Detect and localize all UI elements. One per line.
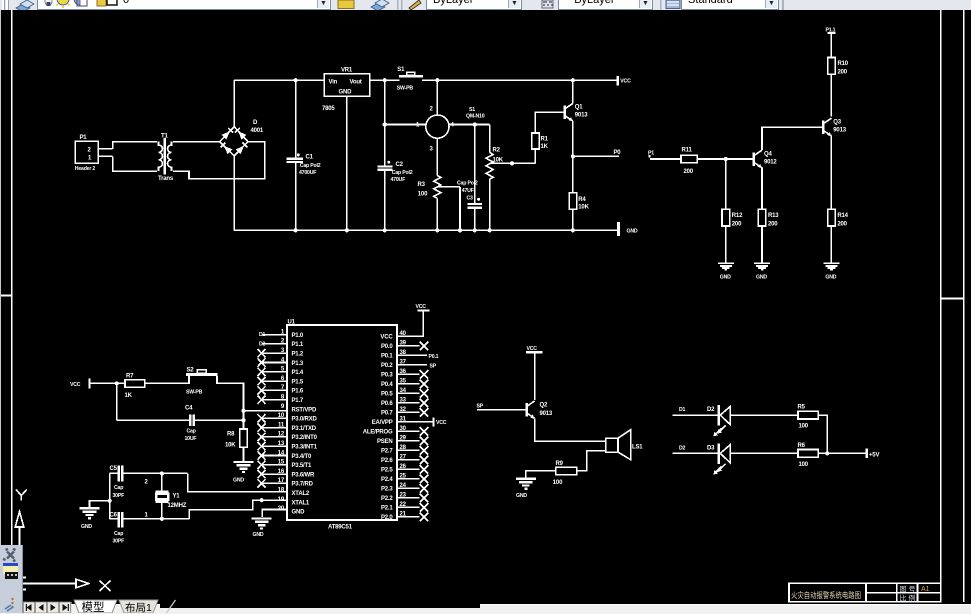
wire R12 branch xyxy=(725,159,727,209)
svg-text:R6: R6 xyxy=(798,443,806,449)
svg-text:D1: D1 xyxy=(259,332,266,338)
svg-text:SP: SP xyxy=(430,364,437,370)
svg-text:EA/VPP: EA/VPP xyxy=(372,420,393,426)
svg-text:U1: U1 xyxy=(288,320,296,326)
svg-text:GND: GND xyxy=(253,532,264,538)
svg-text:R1: R1 xyxy=(541,137,549,143)
ground symbol GND R12 xyxy=(718,263,734,280)
pin 14 P3.4/T0 xyxy=(258,450,312,460)
power terminal VCC speaker xyxy=(526,346,543,352)
svg-text:Vout: Vout xyxy=(350,80,362,86)
svg-text:200: 200 xyxy=(838,70,848,76)
pin 16 P3.6/WR xyxy=(258,469,315,479)
pin 32 P0.7 xyxy=(381,407,428,417)
svg-text:C1: C1 xyxy=(306,154,314,160)
UCS icon origin box xyxy=(20,578,26,590)
svg-text:1: 1 xyxy=(145,513,149,519)
resistor R3 100 xyxy=(418,176,441,199)
svg-text:100: 100 xyxy=(799,462,809,468)
wire R9 to ground xyxy=(526,471,556,478)
wire crystal node2 to pin18 xyxy=(188,473,287,491)
svg-text:P0.6: P0.6 xyxy=(381,401,393,407)
svg-text:D2: D2 xyxy=(679,445,686,451)
svg-text:D1: D1 xyxy=(679,407,686,413)
svg-text:C3: C3 xyxy=(467,195,474,201)
wire C1 branch upper xyxy=(295,80,297,158)
svg-text:P3.3/INT1: P3.3/INT1 xyxy=(292,445,318,451)
svg-text:GND: GND xyxy=(81,524,92,530)
svg-text:火灾自动报警系统电路图: 火灾自动报警系统电路图 xyxy=(791,590,861,600)
svg-text:AT89C51: AT89C51 xyxy=(328,525,353,531)
svg-text:P2.0: P2.0 xyxy=(381,515,393,521)
svg-text:P1.3: P1.3 xyxy=(292,361,304,367)
connector P1 xyxy=(75,135,99,172)
svg-text:470UF: 470UF xyxy=(391,177,406,183)
svg-text:1K: 1K xyxy=(541,144,549,150)
wire R1 top to Q1 base xyxy=(535,112,564,133)
bridge rectifier D 4001 xyxy=(220,120,264,156)
svg-text:12MHZ: 12MHZ xyxy=(168,503,187,509)
svg-text:9012: 9012 xyxy=(764,160,777,166)
node junction C1 top xyxy=(294,78,298,82)
svg-text:C6: C6 xyxy=(110,513,118,519)
svg-text:S2: S2 xyxy=(187,367,195,373)
pin 20 GND xyxy=(278,506,305,515)
node junction pin19 wire xyxy=(260,498,264,502)
UCS icon X axis xyxy=(20,579,111,591)
pin 28 P2.7 xyxy=(381,445,428,455)
wire P1.1 to R10 xyxy=(830,33,832,58)
svg-text:P1.7: P1.7 xyxy=(292,398,304,404)
net label D2 row xyxy=(673,445,719,453)
wire Q1 collector to rail xyxy=(571,78,575,103)
wire T1 secondary top to bridge xyxy=(173,141,220,143)
svg-text:Cap: Cap xyxy=(187,429,196,435)
wire P0 net xyxy=(573,150,621,157)
wire top rail bridge to VR1 Vin xyxy=(234,79,324,81)
transistor Q3 9013 xyxy=(823,118,847,136)
svg-text:Header 2: Header 2 xyxy=(75,166,96,172)
svg-text:R12: R12 xyxy=(732,213,743,219)
wire VR1 Vout to switch S1 xyxy=(370,79,400,81)
LED D2 xyxy=(707,405,730,436)
power terminal P1.1 xyxy=(826,28,836,34)
wire D3 to R6 xyxy=(730,452,798,454)
pin 6 P1.5 xyxy=(258,376,304,386)
svg-text:Q4: Q4 xyxy=(764,152,772,158)
svg-text:P2.3: P2.3 xyxy=(381,487,393,493)
wire C4 branch vertical xyxy=(116,383,118,420)
svg-text:GND: GND xyxy=(233,478,244,484)
resistor R2 10K xyxy=(486,148,504,180)
wire sensor pin3 to R3 xyxy=(436,138,438,175)
pin 35 P0.4 xyxy=(381,379,428,389)
svg-text:D2: D2 xyxy=(259,341,266,347)
pin 29 PSEN xyxy=(377,436,428,446)
svg-text:P2.2: P2.2 xyxy=(381,496,393,502)
svg-text:T1: T1 xyxy=(161,134,168,140)
wire Q1 emitter down xyxy=(572,121,574,193)
pin 34 P0.5 xyxy=(381,388,428,398)
svg-text:SP: SP xyxy=(477,404,484,410)
net label D1 pin1 xyxy=(259,332,266,338)
power terminal VCC above U1 xyxy=(416,304,430,313)
svg-text:9: 9 xyxy=(281,404,285,410)
pin 5 P1.4 xyxy=(258,367,304,377)
svg-text:GND: GND xyxy=(756,274,767,280)
svg-text:Q1: Q1 xyxy=(575,105,583,111)
wire T1 secondary bottom loop to bridge right vertex xyxy=(173,142,265,179)
node junction C4 branch xyxy=(115,381,119,385)
pin 9 RST/VPD xyxy=(281,404,317,414)
wire C4 right leg xyxy=(194,419,244,421)
pin 7 P1.6 xyxy=(258,385,304,395)
svg-text:QM-N10: QM-N10 xyxy=(466,114,485,120)
svg-text:R7: R7 xyxy=(126,373,134,379)
power terminal +5V xyxy=(866,449,880,459)
title cell drawing number xyxy=(900,585,916,593)
wire C5 left to gnd bus xyxy=(110,472,119,474)
power terminal VCC top rail xyxy=(617,76,632,85)
svg-text:P2.7: P2.7 xyxy=(381,449,393,455)
svg-text:VCC: VCC xyxy=(70,382,81,388)
resistor R10 200 xyxy=(828,58,849,76)
wire bridge bottom to rail xyxy=(233,156,235,231)
svg-text:30PF: 30PF xyxy=(113,493,125,499)
sheet frame right outer border xyxy=(941,10,964,602)
pin 23 P2.2 xyxy=(381,493,428,503)
pin 30 ALE/PROG xyxy=(363,426,428,436)
pin 21 P2.0 xyxy=(381,512,428,522)
svg-text:P1.6: P1.6 xyxy=(292,389,304,395)
gas sensor S1 QM-N10 xyxy=(416,107,485,153)
svg-text:P3.4/T0: P3.4/T0 xyxy=(292,454,312,460)
wire S1 to VCC terminal xyxy=(422,79,618,81)
svg-text:Cap: Cap xyxy=(114,485,123,491)
svg-text:P0.7: P0.7 xyxy=(381,411,393,417)
resistor R7 1K xyxy=(125,373,145,399)
capacitor C3 47uF xyxy=(457,125,482,233)
svg-text:R5: R5 xyxy=(798,404,806,410)
svg-text:P1.2: P1.2 xyxy=(292,352,304,358)
svg-text:R8: R8 xyxy=(227,432,235,438)
svg-text:P3.1/TXD: P3.1/TXD xyxy=(292,426,317,432)
net label SP wire xyxy=(477,404,527,410)
svg-text:2: 2 xyxy=(145,480,149,486)
resistor R8 10K xyxy=(225,429,247,449)
svg-text:10UF: 10UF xyxy=(185,436,197,442)
pin 15 P3.5/T1 xyxy=(258,460,312,470)
svg-text:VCC: VCC xyxy=(620,79,631,85)
ground symbol GND R8 xyxy=(233,462,254,484)
svg-text:C4: C4 xyxy=(185,406,193,412)
resistor R4 10K xyxy=(569,193,589,211)
svg-text:D3: D3 xyxy=(707,445,715,451)
svg-text:1K: 1K xyxy=(125,393,133,399)
wire R3 bottom to rail xyxy=(435,198,439,232)
svg-text:2: 2 xyxy=(88,148,92,154)
resistor R13 200 xyxy=(758,209,779,227)
svg-text:Y1: Y1 xyxy=(173,494,181,500)
IC U1 AT89C51 xyxy=(287,320,397,531)
svg-text:VCC: VCC xyxy=(527,346,538,352)
svg-text:18: 18 xyxy=(278,488,285,494)
power terminal P1 net xyxy=(648,151,654,157)
svg-text:S1: S1 xyxy=(469,107,475,113)
svg-text:P2.1: P2.1 xyxy=(381,506,393,512)
svg-text:1: 1 xyxy=(416,123,420,129)
svg-text:布局1: 布局1 xyxy=(125,602,152,613)
svg-text:P1: P1 xyxy=(80,135,88,141)
svg-text:200: 200 xyxy=(768,222,778,228)
LED D3 xyxy=(707,443,730,474)
svg-text:P1.5: P1.5 xyxy=(292,379,304,385)
wire pin20 to ground xyxy=(262,510,287,518)
svg-text:P2.4: P2.4 xyxy=(381,477,393,483)
ground symbol GND speaker xyxy=(516,479,536,499)
pin 24 P2.3 xyxy=(381,483,428,493)
power terminal VCC reset xyxy=(70,378,91,388)
pin 11 P3.1/TXD xyxy=(258,422,317,432)
transformer T1 xyxy=(158,134,174,183)
ground symbol GND R14 xyxy=(824,263,840,280)
wire VCC to R7 xyxy=(91,382,125,384)
svg-text:Q3: Q3 xyxy=(833,120,841,126)
pin 17 P3.7/RD xyxy=(258,478,314,488)
pin 10 P3.0/RXD xyxy=(258,413,318,423)
svg-text:A1: A1 xyxy=(921,586,930,593)
svg-text:Trans: Trans xyxy=(158,176,174,182)
wire R5 to +5V column xyxy=(818,415,827,453)
svg-text:4700UF: 4700UF xyxy=(299,170,316,176)
pin 22 P2.1 xyxy=(381,502,428,512)
pin 19 XTAL1 xyxy=(278,497,310,507)
transistor Q1 9013 xyxy=(565,103,589,121)
svg-text:P3.6/WR: P3.6/WR xyxy=(292,472,315,478)
svg-text:比 例: 比 例 xyxy=(900,594,916,603)
net label P0.1 pin38 xyxy=(429,354,439,360)
svg-text:R3: R3 xyxy=(418,182,426,188)
UCS icon Y axis xyxy=(15,490,27,584)
svg-text:VCC: VCC xyxy=(380,335,393,341)
node junction P0 xyxy=(571,154,575,158)
svg-text:R14: R14 xyxy=(837,213,848,219)
node junction RST wire xyxy=(241,409,245,423)
svg-text:P0.0: P0.0 xyxy=(381,344,393,350)
svg-text:P3.2/INT0: P3.2/INT0 xyxy=(292,435,318,441)
svg-text:1: 1 xyxy=(88,156,92,162)
svg-text:4: 4 xyxy=(451,123,455,129)
pin 1 P1.0 xyxy=(262,329,304,339)
wire R8 to ground xyxy=(243,447,245,461)
svg-text:100: 100 xyxy=(418,192,428,198)
pin 2 P1.1 xyxy=(262,339,304,349)
svg-text:47UF: 47UF xyxy=(462,188,474,194)
transistor Q2 9013 xyxy=(527,401,553,419)
title block xyxy=(789,583,941,602)
capacitor C2 470uF xyxy=(378,161,413,183)
wire crystal node1 to pin19 xyxy=(122,500,287,521)
wire R7 to S2 xyxy=(145,382,189,384)
title cell scale xyxy=(900,594,916,603)
svg-text:R10: R10 xyxy=(838,61,849,67)
svg-text:200: 200 xyxy=(684,169,694,175)
pin 26 P2.5 xyxy=(381,464,428,474)
svg-text:GND: GND xyxy=(292,510,306,516)
resistor R12 200 xyxy=(722,209,743,227)
wire gnd bus to ground xyxy=(90,501,110,508)
svg-text:P2.6: P2.6 xyxy=(381,458,393,464)
svg-text:100: 100 xyxy=(799,423,809,429)
svg-text:VCC: VCC xyxy=(416,304,427,310)
node junction C3 top xyxy=(473,122,477,126)
svg-text:10K: 10K xyxy=(225,443,236,449)
wire R11 to Q2 base xyxy=(697,158,754,160)
wire VR1 GND pin down xyxy=(346,96,348,230)
svg-text:GND: GND xyxy=(720,274,731,280)
svg-text:200: 200 xyxy=(837,222,847,228)
wire R3 tap to C3 leg xyxy=(437,187,462,233)
svg-text:RST/VPD: RST/VPD xyxy=(292,407,317,413)
pin 27 P2.6 xyxy=(381,455,428,465)
pin 40 VCC xyxy=(380,313,423,341)
wire P1 pin2 stub xyxy=(98,148,112,150)
net label D1 row xyxy=(673,407,719,415)
wire D2 to R5 xyxy=(730,414,798,416)
svg-text:P0.5: P0.5 xyxy=(381,392,393,398)
svg-text:R9: R9 xyxy=(556,461,564,467)
pin 8 P1.7 xyxy=(258,395,304,405)
wire Q4 emitter to R13 xyxy=(761,168,763,210)
resistor R6 100 xyxy=(798,443,819,468)
svg-text:P0.1: P0.1 xyxy=(381,354,393,360)
capacitor C4 10uF xyxy=(185,406,197,443)
svg-text:R4: R4 xyxy=(578,197,586,203)
pin 38 P0.1 xyxy=(381,350,427,360)
wire R13 to ground xyxy=(761,226,763,263)
node junction R6 R5 xyxy=(825,451,829,455)
wire C2 branch lower xyxy=(384,170,386,231)
wire sensor pin1 to C2 node xyxy=(385,124,427,126)
svg-text:PSEN: PSEN xyxy=(377,439,393,445)
wire RST to pin9 xyxy=(244,410,288,412)
resistor R5 100 xyxy=(798,404,819,429)
wire C6 left to gnd bus xyxy=(110,518,119,520)
wire Q3 emitter to R14 xyxy=(830,136,832,210)
regulator VR1 7805 xyxy=(322,67,370,112)
svg-text:S1: S1 xyxy=(397,67,405,73)
svg-text:R11: R11 xyxy=(682,148,693,154)
resistor R14 200 xyxy=(828,209,849,227)
resistor R1 1K xyxy=(532,133,549,150)
pin 36 P0.3 xyxy=(381,369,428,379)
svg-text:3: 3 xyxy=(430,147,434,153)
capacitor C1 4700uF xyxy=(287,153,321,175)
svg-text:P2.5: P2.5 xyxy=(381,468,393,474)
svg-text:LS1: LS1 xyxy=(632,445,643,451)
svg-text:模型: 模型 xyxy=(82,600,105,613)
wire P1 to R11 xyxy=(650,158,681,160)
svg-text:9013: 9013 xyxy=(540,411,553,417)
capacitor C6 30pF xyxy=(110,512,125,545)
wire C4 left leg xyxy=(117,419,190,421)
svg-text:P3.7/RD: P3.7/RD xyxy=(292,482,314,488)
svg-text:P0.4: P0.4 xyxy=(381,382,393,388)
wire C2 branch upper xyxy=(384,80,386,166)
left floating panel xyxy=(0,545,23,613)
net label VCC pin31 xyxy=(436,420,447,426)
ground symbol GND crystal xyxy=(80,508,100,530)
svg-text:XTAL2: XTAL2 xyxy=(292,491,310,497)
pin 25 P2.4 xyxy=(381,474,428,484)
svg-text:Cap Pol2: Cap Pol2 xyxy=(300,163,321,169)
pin 3 P1.2 xyxy=(258,348,304,358)
pin 4 P1.3 xyxy=(258,357,304,367)
node junctions bottom rail power xyxy=(294,228,387,232)
svg-text:P0: P0 xyxy=(614,150,622,156)
wire speaker return to R9 xyxy=(577,451,606,471)
svg-text:C2: C2 xyxy=(396,162,404,168)
wire to +5V terminal xyxy=(818,452,866,454)
svg-text:Q2: Q2 xyxy=(540,403,548,409)
wire sensor pin2 to rail xyxy=(435,78,439,115)
svg-text:P0.2: P0.2 xyxy=(381,363,393,369)
pin 33 P0.6 xyxy=(381,398,428,408)
net label D2 pin2 xyxy=(259,341,266,347)
capacitor C5 30pF xyxy=(110,466,125,499)
wire Q4 collector to Q3 base xyxy=(762,127,823,150)
sheet frame left border xyxy=(1,10,12,604)
ground symbol GND pin20 xyxy=(252,519,272,539)
svg-text:Cap: Cap xyxy=(114,531,123,537)
svg-text:9013: 9013 xyxy=(575,113,588,119)
svg-text:SW-PB: SW-PB xyxy=(397,85,414,91)
svg-text:P0.3: P0.3 xyxy=(381,373,393,379)
svg-text:图 号: 图 号 xyxy=(900,585,916,593)
wire R12 to ground xyxy=(725,226,727,263)
svg-text:SW-PB: SW-PB xyxy=(186,390,203,396)
svg-text:GND: GND xyxy=(516,493,527,499)
wire left gnd bus vertical xyxy=(108,473,112,518)
resistor R9 100 xyxy=(553,461,577,486)
layout tab bar xyxy=(0,598,500,613)
net label SP pin37 xyxy=(430,364,437,370)
svg-text:P1.1: P1.1 xyxy=(292,342,304,348)
wire R2 bottom to rail xyxy=(488,179,492,232)
svg-text:Cap Pol2: Cap Pol2 xyxy=(392,170,413,176)
svg-text:10K: 10K xyxy=(578,205,589,211)
transistor Q4 9012 xyxy=(754,150,778,168)
wire R2 to R1 bottom xyxy=(490,149,536,165)
svg-text:9013: 9013 xyxy=(833,127,846,133)
resistor R11 200 xyxy=(681,148,697,175)
crystal Y1 12MHZ xyxy=(155,473,187,518)
wire Q2 emitter to speaker xyxy=(535,418,606,441)
pin 39 P0.0 xyxy=(381,341,428,351)
svg-text:VR1: VR1 xyxy=(341,67,353,73)
svg-text:Vin: Vin xyxy=(329,80,338,86)
svg-text:7805: 7805 xyxy=(322,106,335,112)
switch S2 SW-PB xyxy=(186,367,218,395)
pin 12 P3.2/INT0 xyxy=(258,432,318,442)
svg-text:D: D xyxy=(253,120,258,126)
svg-text:C5: C5 xyxy=(110,466,118,472)
wire C1 branch lower xyxy=(295,162,297,230)
sheet frame right inner border xyxy=(940,10,942,602)
bottom grey strip xyxy=(0,604,971,614)
svg-text:R13: R13 xyxy=(768,213,779,219)
wire sensor pin4 to R2 xyxy=(449,125,490,153)
